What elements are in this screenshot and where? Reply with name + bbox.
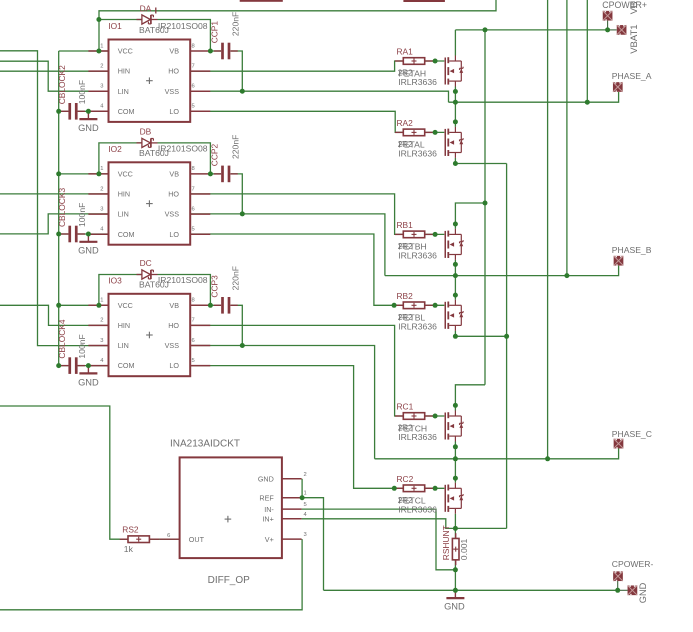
svg-text:PHASE_A: PHASE_A	[612, 71, 652, 81]
svg-text:VSS: VSS	[165, 341, 180, 350]
svg-text:IRLR3636: IRLR3636	[398, 432, 437, 442]
svg-text:COM: COM	[118, 361, 135, 370]
svg-text:3: 3	[304, 532, 307, 538]
svg-text:VCC: VCC	[118, 301, 133, 310]
svg-text:PHASE_B: PHASE_B	[612, 245, 652, 255]
svg-text:1k: 1k	[124, 544, 134, 554]
svg-text:5: 5	[192, 358, 195, 364]
svg-text:RB1: RB1	[397, 220, 414, 230]
svg-text:GND: GND	[638, 582, 648, 603]
svg-text:8: 8	[192, 43, 195, 49]
svg-text:BAT60J: BAT60J	[139, 148, 169, 158]
svg-text:BAT60J: BAT60J	[139, 25, 169, 35]
svg-text:2: 2	[100, 318, 103, 324]
svg-text:IRLR3636: IRLR3636	[398, 251, 437, 261]
svg-text:DB: DB	[140, 126, 152, 136]
svg-text:1: 1	[100, 166, 103, 172]
svg-text:6: 6	[167, 533, 170, 539]
svg-text:5: 5	[192, 227, 195, 233]
svg-text:4: 4	[100, 227, 104, 233]
svg-text:HIN: HIN	[118, 67, 130, 76]
svg-text:CBLOCK3: CBLOCK3	[57, 188, 67, 227]
svg-text:LIN: LIN	[118, 341, 129, 350]
svg-text:2: 2	[304, 472, 307, 478]
svg-text:GND: GND	[444, 602, 465, 612]
svg-text:RC1: RC1	[397, 402, 414, 412]
svg-text:DC: DC	[140, 258, 152, 268]
svg-text:CCP1: CCP1	[210, 21, 220, 44]
svg-text:4: 4	[100, 104, 104, 110]
svg-text:CCP3: CCP3	[210, 275, 220, 298]
svg-text:100nF: 100nF	[77, 80, 87, 104]
svg-text:VB: VB	[629, 2, 640, 15]
svg-text:7: 7	[192, 318, 195, 324]
svg-text:LO: LO	[169, 107, 179, 116]
svg-text:4: 4	[304, 512, 308, 518]
svg-text:2: 2	[100, 63, 103, 69]
svg-text:RC2: RC2	[397, 474, 414, 484]
svg-text:COM: COM	[118, 230, 135, 239]
svg-text:GND: GND	[78, 246, 99, 256]
svg-text:4: 4	[100, 358, 104, 364]
svg-text:GND: GND	[78, 377, 99, 387]
svg-text:OUT: OUT	[189, 535, 205, 544]
svg-text:RSHUNT: RSHUNT	[441, 525, 451, 560]
svg-text:1: 1	[304, 491, 307, 497]
svg-text:1: 1	[100, 43, 103, 49]
svg-text:HO: HO	[168, 67, 179, 76]
svg-text:DA: DA	[140, 4, 152, 14]
svg-text:VSS: VSS	[165, 210, 180, 219]
svg-text:BAT60J: BAT60J	[139, 280, 169, 290]
svg-text:220nF: 220nF	[231, 12, 241, 36]
svg-text:CCP2: CCP2	[210, 144, 220, 167]
svg-text:6: 6	[192, 84, 195, 90]
svg-text:GND: GND	[78, 123, 99, 133]
svg-text:5: 5	[304, 502, 307, 508]
svg-text:IN+: IN+	[262, 515, 273, 524]
svg-text:CBLOCK2: CBLOCK2	[57, 65, 67, 104]
svg-text:VCC: VCC	[118, 47, 133, 56]
svg-text:VCC: VCC	[118, 170, 133, 179]
svg-text:LO: LO	[169, 361, 179, 370]
svg-text:HO: HO	[168, 321, 179, 330]
svg-text:0.001: 0.001	[459, 538, 469, 560]
svg-text:IRLR3636: IRLR3636	[398, 149, 437, 159]
svg-text:6: 6	[192, 338, 195, 344]
svg-text:PHASE_C: PHASE_C	[612, 429, 652, 439]
svg-text:220nF: 220nF	[231, 135, 241, 159]
svg-text:CBLOCK4: CBLOCK4	[57, 319, 67, 358]
svg-text:IRLR3636: IRLR3636	[398, 77, 437, 87]
svg-text:IO3: IO3	[108, 275, 122, 285]
svg-text:RA1: RA1	[397, 47, 414, 57]
svg-text:IN-: IN-	[264, 505, 274, 514]
svg-text:8: 8	[192, 298, 195, 304]
svg-text:3: 3	[100, 338, 103, 344]
svg-text:HO: HO	[168, 190, 179, 199]
svg-text:V+: V+	[265, 535, 274, 544]
svg-text:2: 2	[100, 186, 103, 192]
svg-text:RA2: RA2	[397, 118, 414, 128]
svg-text:IO2: IO2	[108, 144, 122, 154]
svg-text:DIFF_OP: DIFF_OP	[208, 575, 251, 586]
svg-text:REF: REF	[259, 494, 274, 503]
svg-text:6: 6	[192, 206, 195, 212]
svg-text:RB2: RB2	[397, 291, 414, 301]
svg-text:LO: LO	[169, 230, 179, 239]
svg-text:IO1: IO1	[108, 21, 122, 31]
svg-text:1: 1	[100, 298, 103, 304]
svg-text:VBAT1: VBAT1	[629, 24, 640, 53]
svg-text:7: 7	[192, 63, 195, 69]
svg-text:INA213AIDCKT: INA213AIDCKT	[170, 439, 240, 450]
svg-text:LIN: LIN	[118, 210, 129, 219]
svg-text:3: 3	[100, 206, 103, 212]
svg-text:100nF: 100nF	[77, 334, 87, 358]
svg-text:IRLR3636: IRLR3636	[398, 504, 437, 514]
svg-text:VB: VB	[169, 47, 179, 56]
svg-text:100nF: 100nF	[77, 203, 87, 227]
svg-text:VSS: VSS	[165, 87, 180, 96]
svg-text:CPOWER-: CPOWER-	[612, 559, 654, 569]
svg-text:COM: COM	[118, 107, 135, 116]
svg-text:HIN: HIN	[118, 190, 130, 199]
svg-text:5: 5	[192, 104, 195, 110]
svg-text:LIN: LIN	[118, 87, 129, 96]
svg-text:VB: VB	[169, 170, 179, 179]
svg-text:CPOWER+: CPOWER+	[602, 0, 647, 10]
svg-text:3: 3	[100, 84, 103, 90]
svg-text:RS2: RS2	[122, 524, 139, 534]
svg-text:7: 7	[192, 186, 195, 192]
svg-text:VB: VB	[169, 301, 179, 310]
svg-text:8: 8	[192, 166, 195, 172]
svg-text:HIN: HIN	[118, 321, 130, 330]
svg-text:IRLR3636: IRLR3636	[398, 321, 437, 331]
svg-text:GND: GND	[258, 475, 274, 484]
svg-text:220nF: 220nF	[231, 266, 241, 290]
